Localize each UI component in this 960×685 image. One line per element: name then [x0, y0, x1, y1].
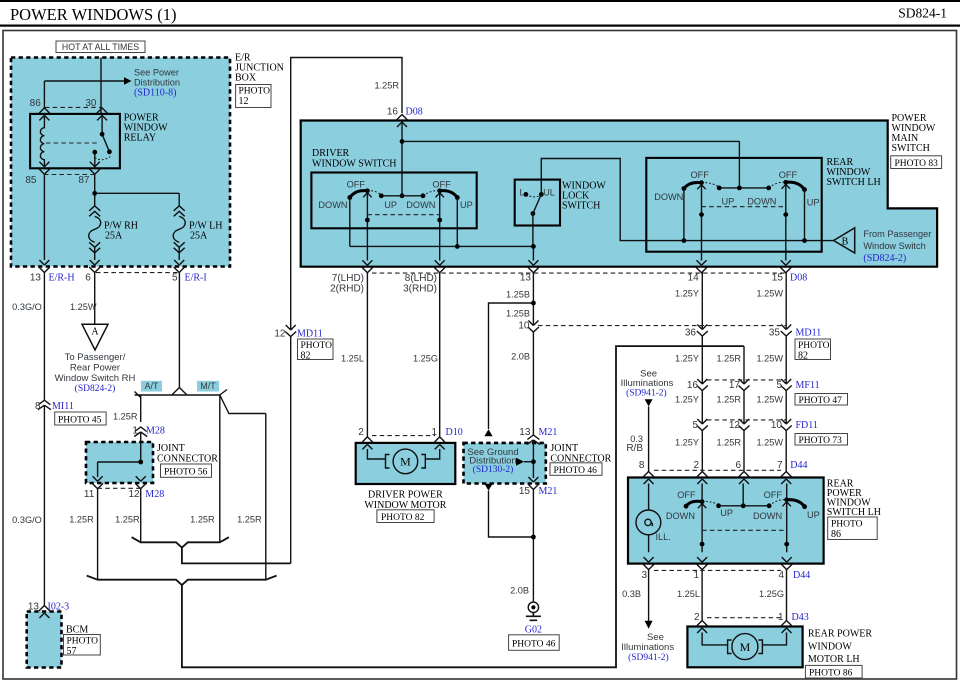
svg-text:See Power: See Power — [134, 68, 179, 78]
svg-text:1.25R: 1.25R — [716, 354, 741, 364]
svg-text:DRIVER POWER: DRIVER POWER — [368, 489, 443, 500]
svg-text:DOWN: DOWN — [666, 511, 695, 521]
svg-text:1.25R: 1.25R — [69, 515, 94, 525]
svg-text:D44: D44 — [793, 570, 810, 581]
svg-text:16: 16 — [387, 107, 399, 118]
svg-text:1.25W: 1.25W — [756, 354, 783, 364]
svg-text:PHOTO 86: PHOTO 86 — [809, 669, 853, 679]
svg-text:8(LHD): 8(LHD) — [405, 273, 437, 284]
svg-text:6: 6 — [735, 460, 741, 471]
svg-text:0.3G/O: 0.3G/O — [12, 302, 42, 312]
svg-text:1.25R: 1.25R — [374, 81, 399, 91]
svg-text:SWITCH LH: SWITCH LH — [827, 507, 881, 518]
svg-text:(SD824-2): (SD824-2) — [75, 383, 116, 394]
svg-text:E/R-H: E/R-H — [49, 273, 75, 284]
svg-text:1.25R: 1.25R — [190, 515, 215, 525]
svg-text:MD11: MD11 — [796, 328, 822, 339]
svg-text:D10: D10 — [446, 427, 463, 438]
svg-text:10: 10 — [771, 420, 783, 431]
svg-text:PHOTO 46: PHOTO 46 — [512, 639, 556, 649]
svg-text:OFF: OFF — [691, 170, 710, 180]
svg-text:1.25Y: 1.25Y — [675, 354, 699, 364]
svg-text:DOWN: DOWN — [747, 197, 776, 207]
svg-text:15: 15 — [772, 273, 784, 284]
svg-text:Rear Power: Rear Power — [70, 363, 120, 374]
svg-text:BCM: BCM — [66, 625, 88, 636]
svg-text:86: 86 — [831, 529, 841, 540]
svg-text:1.25Y: 1.25Y — [675, 289, 699, 299]
svg-text:2: 2 — [693, 460, 699, 471]
svg-text:MF11: MF11 — [796, 380, 820, 391]
svg-text:1.25Y: 1.25Y — [675, 395, 699, 405]
svg-text:R/B: R/B — [626, 443, 643, 454]
svg-text:2: 2 — [694, 612, 700, 623]
svg-text:2.0B: 2.0B — [511, 352, 530, 362]
svg-text:5: 5 — [172, 273, 178, 284]
svg-text:A/T: A/T — [145, 381, 159, 391]
svg-text:PHOTO: PHOTO — [239, 87, 271, 97]
svg-text:UP: UP — [722, 197, 735, 207]
svg-text:1: 1 — [132, 426, 138, 437]
svg-text:1.25W: 1.25W — [756, 395, 783, 405]
svg-text:8: 8 — [639, 460, 645, 471]
svg-text:OFF: OFF — [677, 490, 696, 500]
svg-text:1.25W: 1.25W — [756, 289, 783, 299]
svg-text:DOWN: DOWN — [318, 200, 347, 210]
svg-text:DRIVER: DRIVER — [312, 148, 350, 159]
svg-text:BOX: BOX — [235, 73, 257, 84]
svg-text:OFF: OFF — [764, 490, 783, 500]
svg-text:Illuminations: Illuminations — [621, 378, 674, 389]
svg-text:PHOTO 45: PHOTO 45 — [58, 415, 102, 425]
svg-text:WINDOW SWITCH: WINDOW SWITCH — [312, 159, 397, 170]
svg-text:D08: D08 — [406, 107, 423, 118]
svg-text:1: 1 — [431, 427, 437, 438]
svg-text:M28: M28 — [145, 489, 164, 500]
svg-text:14: 14 — [688, 273, 700, 284]
svg-text:7: 7 — [777, 460, 783, 471]
svg-text:UP: UP — [807, 197, 820, 207]
svg-text:17: 17 — [729, 380, 741, 391]
svg-text:1.25B: 1.25B — [506, 290, 530, 300]
svg-text:UP: UP — [720, 508, 733, 518]
svg-text:(SD110-8): (SD110-8) — [134, 88, 176, 99]
svg-text:UP: UP — [807, 510, 820, 520]
svg-text:ILL.: ILL. — [656, 532, 671, 542]
svg-text:1.25R: 1.25R — [115, 515, 140, 525]
svg-text:To Passenger/: To Passenger/ — [65, 352, 126, 363]
svg-text:86: 86 — [30, 98, 42, 109]
svg-text:87: 87 — [78, 175, 90, 186]
svg-text:CONNECTOR: CONNECTOR — [157, 453, 218, 464]
svg-text:UP: UP — [384, 200, 397, 210]
svg-text:Distribution: Distribution — [134, 78, 180, 88]
svg-text:A: A — [91, 327, 99, 338]
svg-text:L: L — [519, 188, 524, 198]
svg-text:1.25B: 1.25B — [506, 309, 530, 319]
svg-text:12: 12 — [128, 489, 140, 500]
svg-text:2: 2 — [358, 427, 364, 438]
svg-text:M: M — [400, 455, 411, 469]
svg-text:DOWN: DOWN — [654, 192, 683, 202]
svg-text:D08: D08 — [790, 273, 807, 284]
svg-text:(SD941-2): (SD941-2) — [626, 388, 667, 399]
svg-text:(SD130-2): (SD130-2) — [473, 464, 514, 475]
svg-text:JOINT: JOINT — [157, 443, 185, 454]
svg-text:MD11: MD11 — [297, 329, 323, 340]
svg-text:B: B — [842, 236, 849, 247]
svg-text:1: 1 — [693, 570, 699, 581]
svg-text:1.25R: 1.25R — [237, 515, 262, 525]
svg-text:1.25R: 1.25R — [716, 438, 741, 448]
svg-text:57: 57 — [67, 646, 77, 657]
svg-text:PHOTO 56: PHOTO 56 — [164, 467, 208, 477]
svg-text:Window Switch RH: Window Switch RH — [55, 373, 136, 384]
svg-text:UP: UP — [460, 200, 473, 210]
svg-text:82: 82 — [798, 350, 808, 361]
svg-text:REAR POWER: REAR POWER — [808, 629, 873, 640]
svg-text:(SD941-2): (SD941-2) — [628, 652, 669, 663]
svg-text:1.25G: 1.25G — [413, 354, 438, 364]
svg-text:0.3G/O: 0.3G/O — [12, 515, 42, 525]
svg-text:Window Switch: Window Switch — [863, 241, 925, 251]
svg-text:SWITCH: SWITCH — [892, 143, 930, 154]
svg-text:5: 5 — [692, 420, 698, 431]
svg-text:36: 36 — [685, 328, 697, 339]
svg-text:12: 12 — [239, 96, 249, 107]
svg-text:M28: M28 — [146, 426, 165, 437]
svg-text:3(RHD): 3(RHD) — [403, 284, 437, 295]
svg-text:DOWN: DOWN — [406, 200, 435, 210]
svg-text:M21: M21 — [539, 427, 558, 438]
svg-text:1.25R: 1.25R — [716, 395, 741, 405]
svg-text:(SD824-2): (SD824-2) — [863, 253, 906, 264]
svg-text:1.25L: 1.25L — [677, 589, 700, 599]
svg-text:SWITCH LH: SWITCH LH — [827, 177, 881, 188]
svg-text:1.25G: 1.25G — [759, 589, 784, 599]
svg-text:OFF: OFF — [432, 180, 451, 190]
svg-text:I02-3: I02-3 — [48, 602, 70, 613]
svg-text:WINDOW MOTOR: WINDOW MOTOR — [364, 500, 446, 511]
svg-text:FD11: FD11 — [796, 420, 818, 431]
svg-text:30: 30 — [85, 98, 97, 109]
svg-text:15: 15 — [519, 486, 531, 497]
svg-text:2(RHD): 2(RHD) — [330, 284, 364, 295]
svg-text:PHOTO 82: PHOTO 82 — [381, 513, 425, 523]
svg-text:85: 85 — [25, 175, 37, 186]
svg-text:12: 12 — [729, 420, 741, 431]
svg-text:10: 10 — [518, 320, 530, 331]
svg-text:7(LHD): 7(LHD) — [332, 273, 364, 284]
svg-text:RELAY: RELAY — [124, 133, 156, 144]
svg-text:M21: M21 — [539, 486, 558, 497]
svg-text:0.3B: 0.3B — [622, 589, 641, 599]
svg-text:POWER WINDOWS (1): POWER WINDOWS (1) — [10, 5, 177, 24]
svg-text:25A: 25A — [190, 231, 208, 242]
svg-text:OFF: OFF — [347, 180, 366, 190]
svg-text:SWITCH: SWITCH — [562, 201, 600, 212]
svg-text:HOT AT ALL TIMES: HOT AT ALL TIMES — [62, 42, 139, 52]
svg-text:13: 13 — [520, 273, 532, 284]
svg-text:13: 13 — [30, 273, 42, 284]
svg-text:SD824-1: SD824-1 — [898, 6, 947, 21]
svg-text:PHOTO 83: PHOTO 83 — [895, 159, 939, 169]
svg-text:5: 5 — [776, 380, 782, 391]
svg-text:12: 12 — [274, 329, 286, 340]
svg-text:16: 16 — [687, 380, 699, 391]
svg-text:1.25Y: 1.25Y — [675, 438, 699, 448]
svg-text:G02: G02 — [525, 625, 542, 636]
svg-text:From Passenger: From Passenger — [863, 229, 931, 239]
svg-text:1.25R: 1.25R — [113, 412, 138, 422]
svg-text:JOINT: JOINT — [550, 443, 578, 454]
svg-text:13: 13 — [28, 602, 40, 613]
svg-text:2.0B: 2.0B — [510, 586, 529, 596]
svg-text:PHOTO 46: PHOTO 46 — [554, 466, 598, 476]
svg-text:6: 6 — [85, 273, 91, 284]
svg-text:MOTOR LH: MOTOR LH — [808, 654, 860, 665]
svg-text:1.25W: 1.25W — [756, 438, 783, 448]
svg-text:13: 13 — [519, 427, 531, 438]
svg-text:OFF: OFF — [779, 170, 798, 180]
svg-text:M/T: M/T — [200, 381, 216, 391]
svg-text:D43: D43 — [792, 612, 809, 623]
svg-text:D44: D44 — [790, 460, 807, 471]
svg-text:E/R-I: E/R-I — [185, 273, 207, 284]
svg-text:25A: 25A — [105, 231, 123, 242]
svg-text:4: 4 — [778, 570, 784, 581]
svg-text:1.25W: 1.25W — [70, 302, 97, 312]
svg-text:DOWN: DOWN — [753, 511, 782, 521]
svg-text:UL: UL — [543, 188, 555, 198]
svg-text:1: 1 — [778, 612, 784, 623]
svg-text:3: 3 — [641, 570, 647, 581]
svg-text:MI11: MI11 — [52, 401, 74, 412]
svg-text:PHOTO: PHOTO — [831, 520, 863, 530]
svg-text:PHOTO 73: PHOTO 73 — [799, 436, 843, 446]
svg-text:Illuminations: Illuminations — [621, 642, 674, 653]
svg-text:8: 8 — [35, 401, 41, 412]
svg-text:M: M — [740, 640, 751, 654]
svg-text:11: 11 — [84, 489, 95, 500]
svg-text:82: 82 — [301, 350, 311, 361]
svg-text:PHOTO 47: PHOTO 47 — [799, 396, 843, 406]
svg-text:1.25L: 1.25L — [341, 354, 364, 364]
svg-text:WINDOW: WINDOW — [808, 642, 852, 653]
svg-text:35: 35 — [769, 328, 781, 339]
